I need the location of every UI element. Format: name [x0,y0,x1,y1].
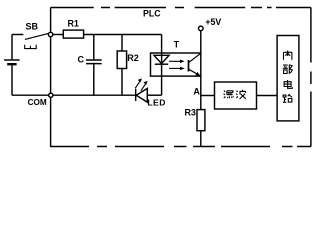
label internal chinese char bu [283,65,293,74]
svg-text:R3: R3 [184,107,196,117]
switch SB pushbutton bracket [25,45,37,49]
wire battery bottom lead [11,65,13,95]
wire node to R1 [53,34,64,36]
+5V terminal circle [199,26,204,31]
wire node A to filter box [201,95,215,97]
svg-text:R1: R1 [67,18,79,28]
wire R1 to optocoupler [84,34,162,36]
resistor R3 bottom lead [200,131,202,147]
label internal chinese char nei [284,50,292,59]
PLC boundary top dashed line [51,7,311,9]
resistor R3 top lead [200,96,202,110]
wire battery top to switch [12,34,23,36]
battery B short plate [7,63,16,65]
label filter chinese char lv [224,91,234,99]
optocoupler diode triangle [154,55,169,63]
svg-text:+5V: +5V [205,17,221,27]
node 1 input terminal [48,32,52,36]
internal circuit box [277,36,299,121]
phototransistor emitter arrowhead [195,72,200,76]
PLC boundary bottom dashed line [50,146,311,148]
svg-text:PLC: PLC [143,9,161,19]
wire filter box to internal circuit box [257,95,278,97]
+5V terminal wire [200,31,202,53]
capacitor C plates [86,60,102,64]
phototransistor base bar [188,60,190,72]
svg-text:C: C [77,54,84,64]
filter box [215,82,257,109]
resistor R1 [63,30,83,38]
label internal chinese char dian [284,80,292,88]
label filter chinese char bo [236,90,246,99]
optocoupler light arrow 2 [169,67,182,69]
optocoupler light arrow 1 [169,60,182,62]
LED light arrow 2 [141,83,146,91]
wire opto to node A [200,76,202,95]
wire bottom rail COM to LED [12,94,136,96]
resistor R2 bottom lead [121,69,123,96]
battery B long plate [4,59,20,61]
node 2 COM terminal [49,93,53,97]
svg-text:T: T [174,40,180,50]
svg-text:R2: R2 [127,53,139,63]
optocoupler diode lead [161,35,163,96]
svg-text:A: A [193,86,200,96]
label internal chinese char lu [283,94,292,102]
wire LED to optocoupler [147,94,161,96]
resistor R2 top lead [121,35,123,52]
wire battery top lead [11,35,13,60]
svg-text:SB: SB [26,22,39,32]
optocoupler diode cathode bar [155,63,168,65]
LED light arrow 1 [135,81,140,89]
LED indicator triangle [136,88,147,102]
LED indicator cathode bar [135,89,137,101]
capacitor C top lead [93,35,95,60]
optocoupler T box [151,53,201,76]
resistor R2 [117,51,126,69]
PLC boundary left vertical wire [50,8,52,147]
capacitor C bottom lead [93,64,95,95]
phototransistor collector [189,53,201,62]
phototransistor emitter [189,69,201,76]
PLC boundary right dashed line [310,8,312,147]
svg-text:COM: COM [28,98,47,107]
resistor R3 [197,110,205,131]
svg-text:LED: LED [147,98,166,108]
switch SB blade [25,33,49,39]
